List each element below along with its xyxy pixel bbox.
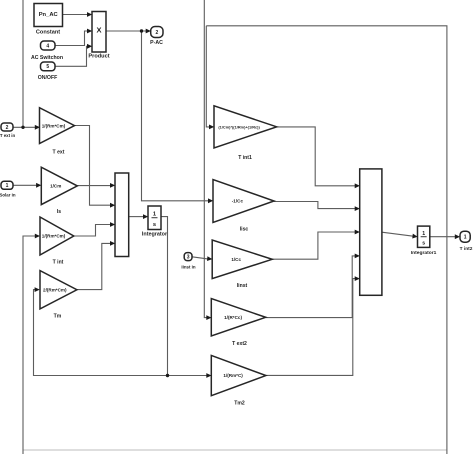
svg-text:5: 5: [46, 64, 49, 70]
svg-text:Is: Is: [57, 209, 61, 215]
svg-text:2: 2: [155, 30, 158, 36]
svg-text:1/Cc: 1/Cc: [231, 257, 241, 262]
svg-text:Pn_AC: Pn_AC: [39, 12, 59, 18]
svg-text:T int2: T int2: [460, 246, 473, 252]
svg-text:1/(Rm*Cm): 1/(Rm*Cm): [42, 234, 66, 239]
svg-text:T ext: T ext: [53, 150, 65, 156]
svg-text:s: s: [422, 240, 425, 246]
svg-text:X: X: [96, 26, 101, 35]
svg-text:Constant: Constant: [36, 30, 60, 36]
svg-text:1: 1: [464, 235, 467, 241]
svg-text:Integrator1: Integrator1: [411, 250, 437, 256]
svg-text:2/(Rm*Cm): 2/(Rm*Cm): [43, 287, 67, 292]
svg-text:Integrator: Integrator: [142, 232, 168, 238]
svg-text:s: s: [153, 222, 156, 228]
svg-text:Tm: Tm: [54, 314, 62, 320]
svg-text:1/(R*Cc): 1/(R*Cc): [224, 315, 242, 320]
svg-text:Solar in: Solar in: [0, 193, 16, 198]
svg-text:1/(Rm*C): 1/(Rm*C): [223, 373, 243, 378]
svg-text:-1/Cc: -1/Cc: [232, 199, 244, 204]
svg-text:(1/Cm)*((1/Rm)+(1/Rc)): (1/Cm)*((1/Rm)+(1/Rc)): [218, 124, 260, 129]
svg-text:ON/OFF: ON/OFF: [38, 75, 58, 81]
svg-text:Iinst: Iinst: [237, 283, 248, 289]
svg-text:T ext2: T ext2: [232, 341, 247, 347]
svg-text:2: 2: [6, 125, 9, 131]
svg-text:T int: T int: [53, 260, 64, 266]
svg-text:1: 1: [422, 231, 425, 237]
svg-text:1/(Rm*Cm): 1/(Rm*Cm): [42, 123, 66, 128]
svg-text:T ext in: T ext in: [0, 133, 15, 138]
svg-text:T int1: T int1: [238, 155, 252, 161]
svg-text:4: 4: [46, 43, 49, 49]
svg-text:1/Cm: 1/Cm: [50, 184, 61, 189]
svg-text:AC Switchon: AC Switchon: [31, 55, 63, 61]
svg-text:P-AC: P-AC: [150, 40, 163, 46]
svg-text:Iinst in: Iinst in: [181, 265, 195, 270]
svg-text:1: 1: [6, 183, 9, 189]
svg-text:Product: Product: [88, 54, 109, 60]
svg-text:Tm2: Tm2: [234, 401, 245, 407]
svg-text:Iisc: Iisc: [240, 227, 249, 233]
svg-text:3: 3: [187, 254, 190, 260]
